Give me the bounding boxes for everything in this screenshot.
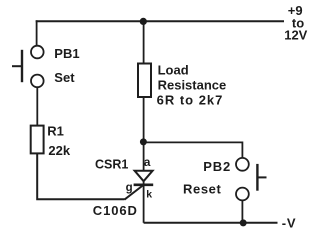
pushbutton PB2 actuator stem xyxy=(257,176,266,178)
wire SCR apex to cathode bar xyxy=(143,180,145,185)
svg-text:12V: 12V xyxy=(284,27,307,42)
pushbutton PB2 terminal circle top xyxy=(236,158,249,171)
svg-text:-V: -V xyxy=(282,215,297,230)
wire R1 down and right to gate xyxy=(37,154,124,199)
wire PB2 to bottom rail xyxy=(241,200,243,223)
svg-text:Resistance: Resistance xyxy=(158,77,227,92)
thyristor CSR1 triangle xyxy=(135,171,153,182)
svg-text:PB1: PB1 xyxy=(54,46,79,61)
wire anode node to PB2 branch xyxy=(146,142,242,158)
resistor Load body xyxy=(138,64,151,98)
svg-text:g: g xyxy=(126,182,133,194)
junction dot bottom rail / PB2 xyxy=(240,219,247,226)
junction dot top rail / load xyxy=(140,18,147,25)
svg-text:CSR1: CSR1 xyxy=(95,158,128,172)
wire top rail +V xyxy=(36,20,284,22)
svg-text:k: k xyxy=(146,188,152,200)
pushbutton PB1 terminal circle top xyxy=(31,46,44,59)
pushbutton PB1 actuator stem xyxy=(12,65,22,67)
svg-text:C106D: C106D xyxy=(93,203,138,218)
junction dot anode node xyxy=(140,138,147,145)
svg-text:R1: R1 xyxy=(47,124,64,139)
pushbutton PB2 plunger bar xyxy=(256,164,258,191)
wire top-left corner down to PB1 xyxy=(36,20,38,45)
svg-text:6R to 2k7: 6R to 2k7 xyxy=(157,92,224,107)
svg-text:22k: 22k xyxy=(48,143,70,158)
pushbutton PB2 terminal circle bottom xyxy=(236,188,249,201)
wire load resistor to SCR anode xyxy=(143,98,145,171)
wire bottom rail -V xyxy=(144,222,278,224)
thyristor CSR1 cathode bar xyxy=(134,184,154,187)
pushbutton PB1 plunger bar xyxy=(21,50,23,82)
wire cathode down to bottom rail xyxy=(143,185,145,223)
wire +V rail to load resistor xyxy=(143,21,145,63)
wire gate diagonal lead xyxy=(125,185,144,200)
wire PB1 to R1 xyxy=(36,87,38,125)
svg-text:PB2: PB2 xyxy=(203,159,231,174)
resistor R1 body xyxy=(31,126,44,154)
svg-text:Reset: Reset xyxy=(183,181,221,196)
pushbutton PB1 terminal circle bottom xyxy=(31,75,44,88)
svg-text:a: a xyxy=(144,155,151,169)
svg-text:Load: Load xyxy=(158,62,189,77)
svg-text:Set: Set xyxy=(54,70,75,85)
